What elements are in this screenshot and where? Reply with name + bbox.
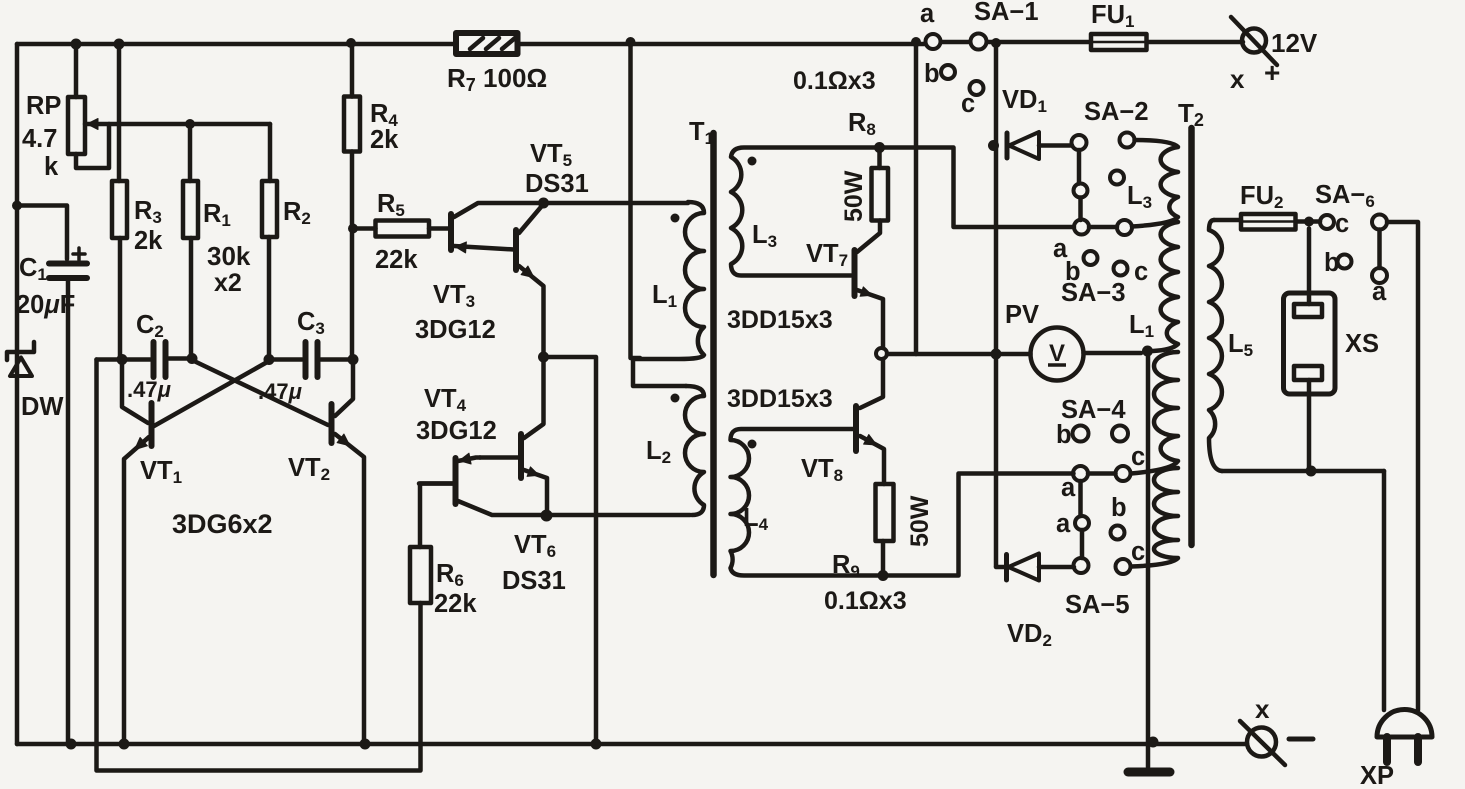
transistor VT1	[149, 403, 155, 446]
svg-text:RP: RP	[26, 92, 61, 120]
svg-text:SA−2: SA−2	[1084, 98, 1149, 126]
resistor R9	[876, 484, 894, 541]
transistor VT2	[335, 360, 353, 417]
junction R4 / R5	[348, 224, 358, 234]
junction bottom rail / VT2 emitter	[360, 739, 371, 750]
junction R9 / L4 bottom	[878, 570, 889, 581]
svg-text:0.1Ωx3: 0.1Ωx3	[824, 587, 907, 615]
wire VT1 collector feed	[122, 360, 148, 424]
svg-text:a: a	[1061, 474, 1076, 502]
svg-text:3DD15x3: 3DD15x3	[727, 385, 833, 413]
switch SA-4	[1073, 426, 1089, 442]
transistor VT7	[852, 250, 858, 296]
switch SA-2	[1072, 135, 1087, 150]
junction VT3-VT5 collectors	[538, 198, 549, 209]
wire left rail	[15, 44, 20, 744]
junction C3 / R4 / VT2 collector	[348, 354, 359, 365]
label R8 power 50W	[840, 170, 868, 222]
svg-text:b: b	[1324, 249, 1340, 277]
wire R8 node to SA-3 contact a	[880, 148, 1075, 228]
winding L5 (T2)	[1209, 220, 1222, 471]
svg-text:2k: 2k	[134, 227, 163, 255]
svg-text:4.7: 4.7	[22, 125, 57, 153]
svg-text:DS31: DS31	[525, 170, 589, 198]
junction bottom rail / ground	[1148, 737, 1159, 748]
svg-text:30k: 30k	[207, 241, 251, 271]
wire center tap feed	[631, 44, 641, 358]
svg-text:12V: 12V	[1271, 28, 1318, 58]
junction R2 / C3 / VT1 base	[264, 354, 275, 365]
svg-text:x: x	[1230, 64, 1245, 94]
resistor R5	[376, 221, 430, 237]
svg-text:2k: 2k	[370, 126, 399, 154]
svg-text:DS31: DS31	[502, 567, 566, 595]
wire R9 node to SA-4 contact a	[883, 474, 1074, 576]
svg-text:22k: 22k	[434, 590, 477, 618]
wire R6 coupling loop	[97, 360, 421, 771]
svg-text:R7 100Ω: R7 100Ω	[447, 63, 547, 95]
diode VD2	[1004, 555, 1009, 581]
svg-text:XP: XP	[1360, 762, 1394, 789]
wire VT5/VT6 node	[544, 357, 597, 744]
svg-text:x2: x2	[214, 269, 242, 297]
svg-text:a: a	[1056, 510, 1071, 538]
resistor R7	[456, 33, 518, 54]
junction top rail / R3	[114, 39, 125, 50]
svg-text:+: +	[1264, 57, 1280, 88]
junction L5 bottom / XS	[1306, 466, 1317, 477]
capacitor C2	[97, 357, 151, 362]
svg-text:SA−5: SA−5	[1065, 591, 1130, 619]
winding L3 (T2)	[1132, 140, 1178, 227]
svg-text:.47μ: .47μ	[127, 377, 171, 402]
svg-text:3DD15x3: 3DD15x3	[727, 306, 833, 334]
wire center tap step	[633, 359, 686, 386]
wire top rail	[17, 42, 1243, 44]
junction T2 tap / PV	[1142, 346, 1153, 357]
wire bottom rail	[17, 742, 1247, 747]
switch SA-5	[1078, 481, 1083, 516]
svg-text:x: x	[1255, 694, 1270, 724]
resistor R1	[183, 181, 198, 238]
transistor VT5	[513, 230, 519, 270]
junction top rail / T1 center tap	[626, 37, 636, 47]
junction C2 / R1 / VT2 base	[187, 353, 198, 364]
zener DW	[7, 342, 34, 360]
svg-text:3DG12: 3DG12	[415, 316, 496, 344]
transformer T2 core	[1188, 128, 1195, 545]
junction +12V line / VD1	[988, 140, 999, 151]
terminal X+	[1242, 29, 1266, 53]
svg-text:V: V	[1049, 340, 1065, 367]
capacitor C1	[17, 206, 67, 260]
svg-text:c: c	[1131, 443, 1145, 471]
wire cross-coupling	[194, 361, 328, 425]
svg-text:a: a	[1372, 278, 1387, 306]
svg-text:20μF: 20μF	[16, 291, 75, 319]
terminal X-	[1247, 728, 1276, 757]
polarity dot L2	[671, 394, 680, 403]
junction bottom rail / VT1 emitter	[119, 739, 130, 750]
svg-text:c: c	[961, 90, 975, 118]
svg-text:b: b	[1111, 494, 1127, 522]
junction FU2 / XS	[1304, 217, 1314, 227]
capacitor C3	[269, 357, 302, 362]
transistor VT6	[518, 434, 524, 478]
svg-text:PV: PV	[1005, 301, 1039, 329]
winding L1 (T2)	[1153, 222, 1178, 351]
winding L3 (T1)	[731, 148, 880, 276]
junction left rail / C1	[12, 201, 22, 211]
junction +12V line / PV	[991, 349, 1002, 360]
fuse FU2	[1214, 220, 1320, 222]
svg-text:b: b	[924, 60, 940, 88]
svg-text:c: c	[1131, 538, 1145, 566]
junction top rail / R4	[346, 38, 356, 48]
junction top rail / RP	[71, 39, 82, 50]
socket XS	[1307, 229, 1312, 305]
junction L3 top / R8	[874, 142, 885, 153]
voltmeter PV	[1031, 328, 1084, 381]
ground	[1146, 744, 1151, 767]
svg-text:SA−3: SA−3	[1061, 279, 1126, 307]
wire +12V drop to SA-1 area	[994, 44, 999, 567]
svg-text:3DG6x2: 3DG6x2	[172, 509, 273, 539]
junction bottom rail / emitter return	[591, 739, 602, 750]
junction bottom rail / C1	[66, 739, 77, 750]
resistor R4	[344, 97, 360, 152]
potentiometer RP	[68, 97, 85, 154]
svg-text:0.1Ωx3: 0.1Ωx3	[793, 67, 876, 95]
wire emitter node to PV	[887, 352, 1031, 357]
winding section 4 (T2)	[1131, 468, 1178, 567]
svg-text:c: c	[1335, 210, 1349, 238]
junction RP wiper / R1	[185, 119, 195, 129]
resistor R3	[112, 181, 127, 238]
winding section 3 (T2)	[1131, 352, 1178, 474]
transistor VT4	[453, 458, 459, 504]
svg-text:XS: XS	[1345, 330, 1379, 358]
winding L1 (T1)	[633, 202, 704, 359]
svg-text:.47μ: .47μ	[258, 379, 302, 404]
polarity dot L1	[671, 214, 680, 223]
winding L4 (T1)	[731, 429, 884, 576]
transformer T1 core	[710, 133, 717, 575]
resistor R8	[872, 168, 889, 221]
plug XP	[1377, 710, 1432, 738]
transistor VT3	[448, 214, 454, 250]
svg-text:3DG12: 3DG12	[416, 417, 497, 445]
svg-text:SA−4: SA−4	[1061, 396, 1126, 424]
polarity dot L4	[748, 440, 757, 449]
svg-text:50W: 50W	[906, 495, 934, 547]
svg-text:22k: 22k	[375, 246, 418, 274]
svg-text:c: c	[1134, 258, 1148, 286]
wire T2 tap to ground	[1146, 353, 1151, 744]
svg-text:a: a	[920, 0, 935, 28]
diode VD1	[1005, 133, 1010, 158]
wire L5 bottom to XP left	[1222, 469, 1384, 474]
winding L2 (T1)	[685, 386, 704, 515]
switch SA-1	[926, 34, 941, 49]
polarity dot L3	[748, 157, 757, 166]
junction top rail / SA-1 feed	[911, 37, 921, 47]
svg-text:b: b	[1056, 421, 1072, 449]
switch SA-6	[1320, 215, 1334, 229]
switch SA-3 contacts	[1074, 220, 1089, 235]
resistor R2	[262, 181, 277, 237]
svg-text:DW: DW	[21, 393, 64, 421]
junction VT5 emitter / VT6 collector	[538, 352, 549, 363]
svg-text:k: k	[44, 153, 59, 181]
junction top rail / VD1 branch	[991, 38, 1001, 48]
junction R3 / C2 / VT1 collector	[117, 354, 128, 365]
junction VT4 / VT6 / L2	[541, 510, 553, 522]
voltmeter PV scale V with underline	[1048, 363, 1066, 367]
svg-text:SA−1: SA−1	[974, 0, 1039, 26]
fuse FU1	[1091, 34, 1147, 50]
transistor VT8	[860, 359, 883, 408]
svg-text:50W: 50W	[840, 170, 868, 222]
label R9 power 50W	[906, 495, 934, 547]
resistor R6	[410, 547, 431, 603]
